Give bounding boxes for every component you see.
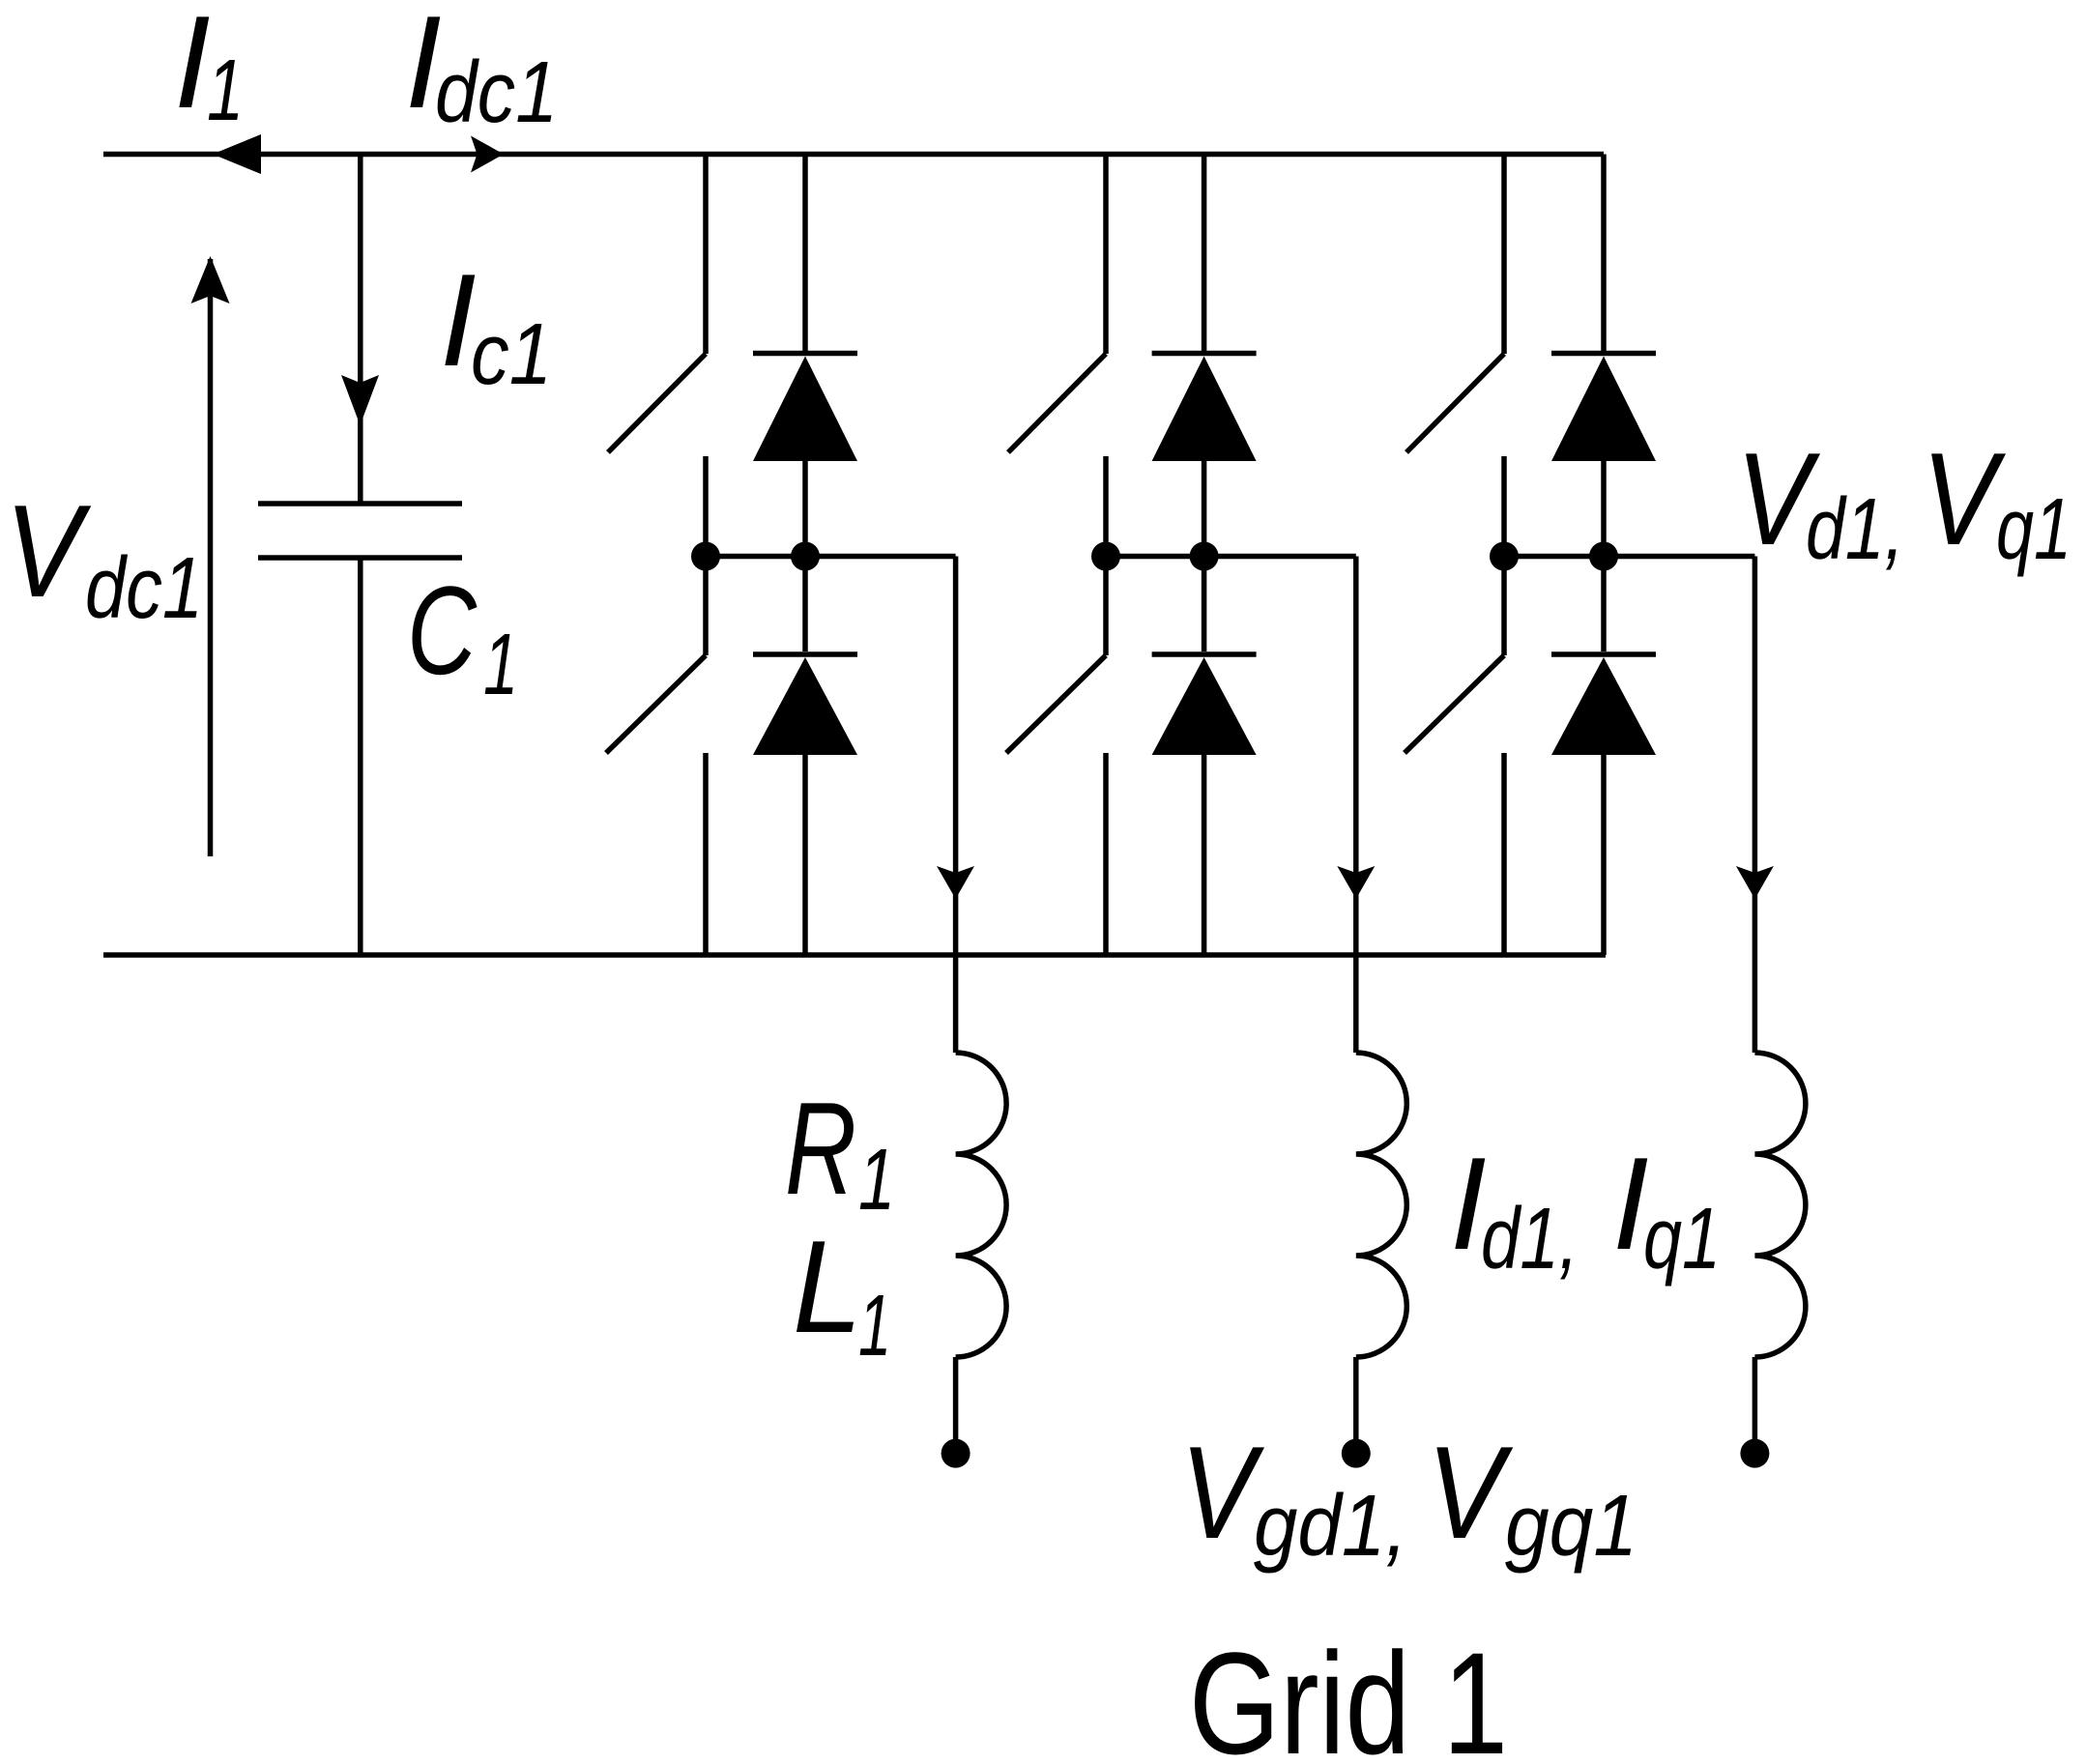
svg-text:1: 1 bbox=[858, 1278, 891, 1374]
arrowhead Vdc1 (up) bbox=[191, 256, 230, 304]
inductor L1 phase C bbox=[1754, 1053, 1806, 1357]
wire phase A horizontal bbox=[706, 554, 956, 560]
wire bottom DC rail bbox=[103, 952, 1606, 958]
svg-text:1: 1 bbox=[858, 1132, 895, 1229]
node junction dot leg3 diode bbox=[1589, 542, 1618, 571]
node junction dot leg1 switch bbox=[691, 542, 720, 571]
diode D1 triangle bbox=[753, 357, 857, 462]
transistor S5 top stub bbox=[1501, 155, 1507, 355]
arrowhead phase A current (down) bbox=[937, 866, 974, 899]
transistor S5 blade bbox=[1406, 354, 1504, 452]
transistor S6 bottom stub bbox=[1501, 753, 1507, 955]
transistor S2 top stub bbox=[703, 557, 709, 656]
transistor S1 bottom stub bbox=[703, 456, 709, 557]
arrowhead phase B current (down) bbox=[1337, 866, 1375, 899]
diode D5 cathode bar bbox=[1551, 351, 1656, 357]
node junction dot leg1 diode bbox=[791, 542, 820, 571]
svg-text:q1: q1 bbox=[1996, 481, 2072, 578]
wire phase A vertical bbox=[953, 557, 959, 1054]
arrowhead phase C current (down) bbox=[1736, 866, 1774, 899]
inductor L1 phase B bbox=[1356, 1053, 1407, 1357]
svg-text:gd1,: gd1, bbox=[1254, 1478, 1407, 1575]
arrowhead Idc1 (right) bbox=[471, 136, 504, 173]
diode D4 triangle bbox=[1152, 657, 1257, 755]
svg-text:V: V bbox=[1922, 425, 2007, 572]
transistor S6 blade bbox=[1405, 655, 1504, 753]
diode D3 anode wire bbox=[1202, 461, 1207, 557]
svg-text:c1: c1 bbox=[471, 306, 552, 403]
diode D1 top stub bbox=[802, 155, 808, 354]
wire phase C vertical bbox=[1753, 557, 1758, 1054]
wire phase C tail bbox=[1753, 1357, 1758, 1447]
diode D4 cathode wire bbox=[1202, 557, 1207, 652]
diode D2 cathode wire bbox=[802, 557, 808, 652]
svg-text:V: V bbox=[1427, 1419, 1514, 1566]
svg-text:1: 1 bbox=[483, 617, 518, 713]
svg-text:R: R bbox=[785, 1075, 856, 1222]
diode D2 anode wire bbox=[802, 755, 808, 955]
svg-text:L: L bbox=[793, 1213, 862, 1360]
svg-text:V: V bbox=[1180, 1419, 1265, 1566]
diode D1 anode wire bbox=[802, 461, 808, 557]
transistor S5 bottom stub bbox=[1501, 456, 1507, 557]
node terminal dot phase B bbox=[1342, 1439, 1371, 1468]
transistor S1 blade bbox=[608, 354, 706, 452]
diode D3 triangle bbox=[1152, 357, 1257, 462]
wire top DC rail bbox=[103, 152, 1604, 158]
transistor S3 blade bbox=[1008, 354, 1106, 452]
svg-text:dc1: dc1 bbox=[435, 44, 558, 141]
arrowhead I1 (left) bbox=[213, 134, 261, 174]
diode D5 triangle bbox=[1551, 357, 1656, 462]
wire capacitor branch lower bbox=[358, 561, 363, 956]
node junction dot leg2 diode bbox=[1190, 542, 1219, 571]
transistor S3 bottom stub bbox=[1103, 456, 1109, 557]
diode D2 cathode bar bbox=[753, 651, 857, 657]
transistor S2 bottom stub bbox=[703, 753, 709, 955]
node terminal dot phase C bbox=[1740, 1439, 1769, 1468]
diode D1 cathode bar bbox=[753, 351, 857, 357]
transistor S4 blade bbox=[1006, 655, 1106, 753]
transistor S4 top stub bbox=[1103, 557, 1109, 656]
diode D6 triangle bbox=[1551, 657, 1656, 755]
svg-text:I: I bbox=[174, 0, 211, 135]
svg-text:Grid 1: Grid 1 bbox=[1189, 1622, 1508, 1764]
svg-text:gq1: gq1 bbox=[1505, 1478, 1637, 1575]
wire phase B horizontal bbox=[1106, 554, 1356, 560]
svg-text:q1: q1 bbox=[1643, 1191, 1721, 1287]
wire phase C horizontal bbox=[1504, 554, 1754, 560]
transistor S2 blade bbox=[606, 655, 706, 753]
node terminal dot phase A bbox=[942, 1439, 971, 1468]
diode D4 cathode bar bbox=[1152, 651, 1257, 657]
svg-text:d1,: d1, bbox=[1806, 481, 1904, 578]
wire phase B vertical bbox=[1353, 557, 1359, 1054]
wire capacitor branch upper bbox=[358, 155, 363, 502]
svg-text:1: 1 bbox=[207, 43, 244, 139]
arrowhead Ic1 (down) bbox=[341, 375, 379, 425]
transistor S3 top stub bbox=[1103, 155, 1109, 355]
svg-text:V: V bbox=[5, 477, 92, 624]
diode D5 anode wire bbox=[1601, 461, 1607, 557]
diode D2 triangle bbox=[753, 657, 857, 755]
inductor L1 phase A bbox=[956, 1053, 1007, 1357]
transistor S4 bottom stub bbox=[1103, 753, 1109, 955]
diode D6 cathode bar bbox=[1551, 651, 1656, 657]
diode D5 top stub bbox=[1601, 155, 1607, 354]
diode D4 anode wire bbox=[1202, 755, 1207, 955]
node junction dot leg2 switch bbox=[1091, 542, 1120, 571]
capacitor C1 bbox=[258, 504, 462, 558]
diode D6 anode wire bbox=[1601, 755, 1607, 955]
transistor S6 top stub bbox=[1501, 557, 1507, 656]
wire phase A tail bbox=[953, 1357, 959, 1447]
svg-text:C: C bbox=[407, 560, 478, 701]
diode D3 cathode bar bbox=[1152, 351, 1257, 357]
diode D3 top stub bbox=[1202, 155, 1207, 354]
diode D6 cathode wire bbox=[1601, 557, 1607, 652]
wire phase B tail bbox=[1353, 1357, 1359, 1447]
node junction dot leg3 switch bbox=[1490, 542, 1519, 571]
node Vdc1 arrow line bbox=[208, 259, 214, 856]
transistor S1 top stub bbox=[703, 155, 709, 355]
svg-text:d1,: d1, bbox=[1481, 1191, 1579, 1287]
svg-text:dc1: dc1 bbox=[85, 540, 203, 637]
